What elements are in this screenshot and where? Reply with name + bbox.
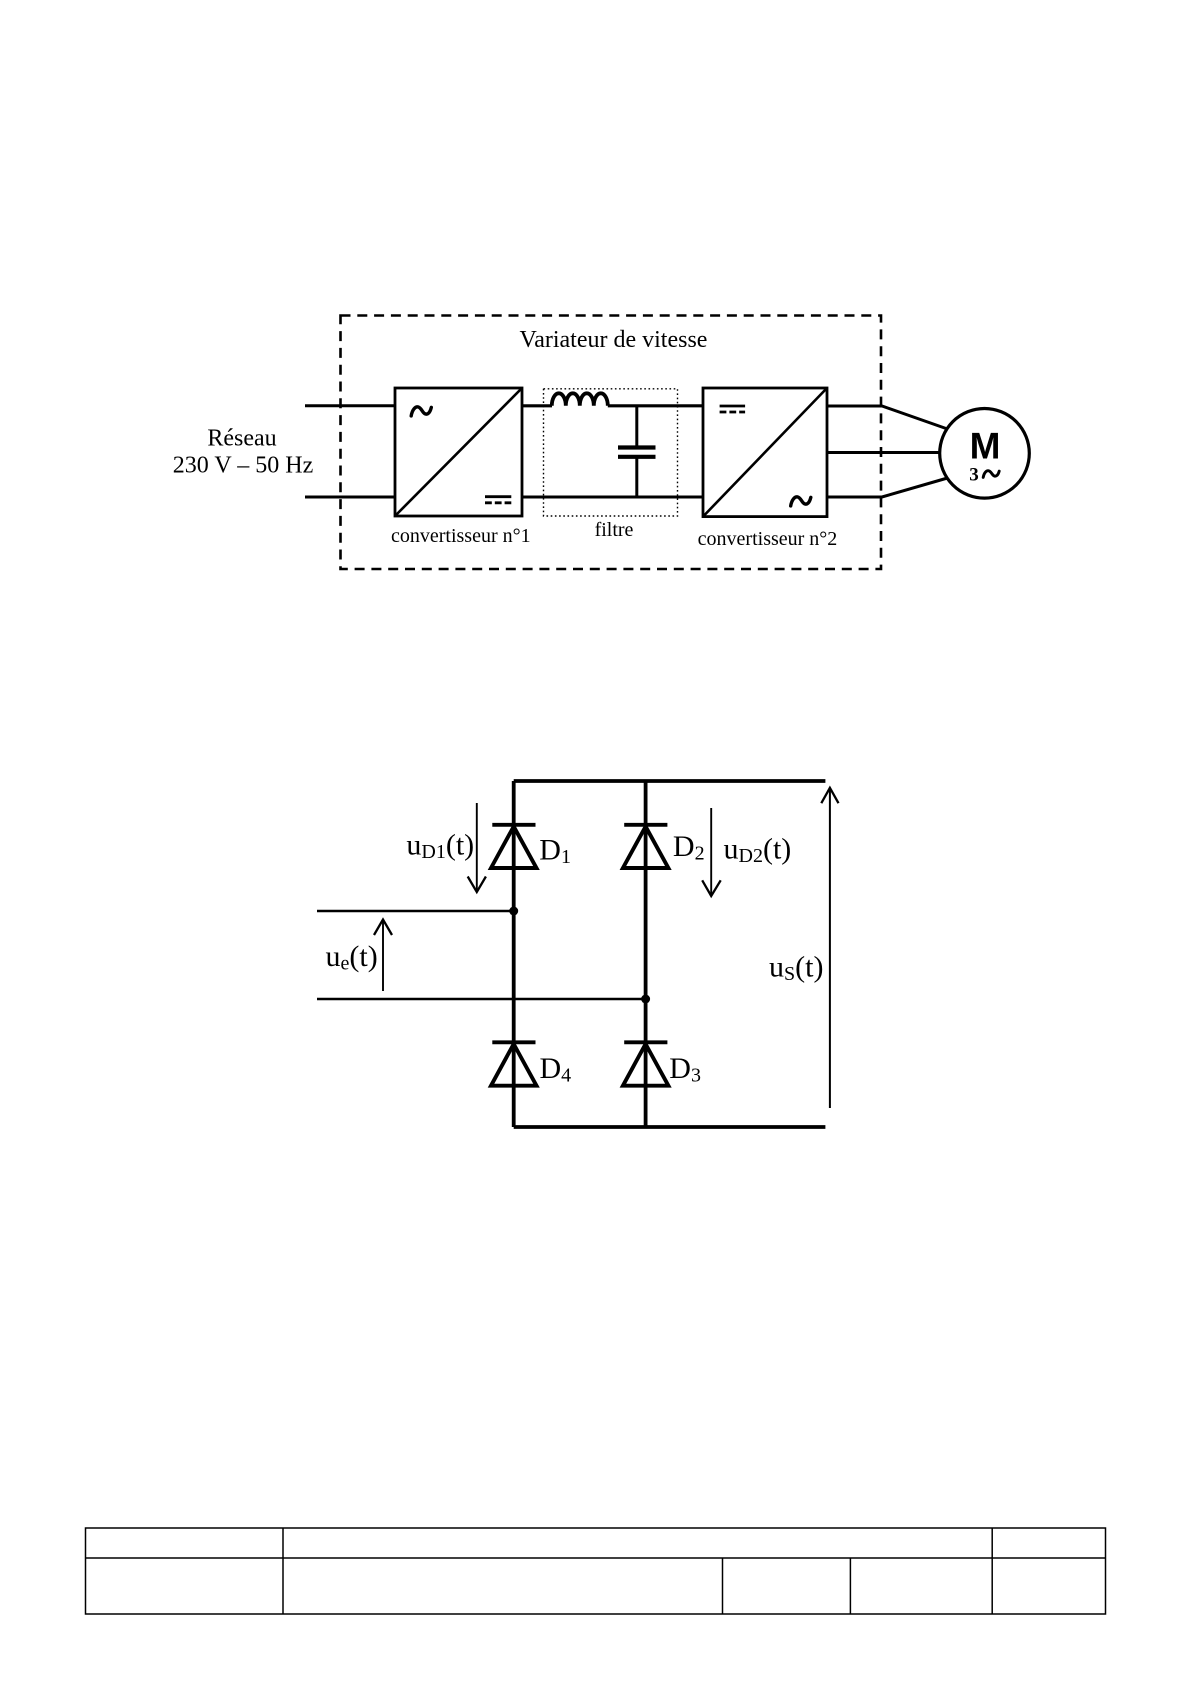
dotted filter box: [544, 389, 678, 516]
capacitor C (filter): [618, 406, 656, 497]
svg-text:Réseau: Réseau: [207, 426, 276, 452]
svg-text:convertisseur n°2: convertisseur n°2: [698, 528, 838, 550]
dashed enclosure box: Variateur de vitesse: [341, 316, 882, 570]
svg-text:Variateur de vitesse: Variateur de vitesse: [520, 327, 708, 353]
svg-text:ue(t): ue(t): [326, 940, 378, 975]
svg-text:230 V – 50 Hz: 230 V – 50 Hz: [173, 453, 313, 479]
label D3: [669, 1052, 701, 1087]
converter U1 box (convertisseur n°1): [395, 388, 522, 516]
svg-text:3: 3: [969, 465, 979, 486]
wire: U2 output phase 1: [827, 406, 948, 429]
table grid: [86, 1528, 1106, 1614]
AC tilde symbol in converter U2: [791, 497, 811, 506]
title: Variateur de vitesse: [520, 327, 708, 353]
label uD1(t): [406, 829, 474, 864]
wire: mains input bottom: [305, 496, 395, 499]
diode D4: [491, 1042, 537, 1085]
wire: bridge top rail: [514, 779, 826, 783]
wire: bridge bottom rail: [514, 1125, 826, 1129]
arrow ue(t): [374, 920, 392, 992]
label D4: [540, 1052, 572, 1087]
DC symbol in converter U2: [720, 406, 746, 412]
AC tilde symbol in converter U1: [411, 407, 431, 416]
wire: DC link bottom U1 to U2: [522, 496, 703, 499]
label D1: [539, 834, 571, 869]
wire: mains input top: [305, 404, 395, 407]
label uS(t): [769, 951, 823, 986]
diode D2: [623, 825, 669, 868]
motor M 3~: [940, 409, 1030, 499]
arrow uD2(t): [702, 808, 721, 896]
wire: U2 output phase 2: [827, 451, 940, 454]
label ue(t): [326, 940, 378, 975]
wire: U2 output phase 3: [827, 478, 948, 497]
inductor L (filter): [552, 393, 608, 406]
label: filtre: [595, 519, 634, 541]
svg-text:uS(t): uS(t): [769, 951, 823, 986]
wire: input lower (to node B): [317, 998, 646, 1001]
svg-text:convertisseur n°1: convertisseur n°1: [391, 525, 531, 547]
label: Réseau 230 V – 50 Hz: [173, 426, 313, 479]
wire: left leg (D1/D4 column): [512, 781, 516, 1127]
wire: inductor to converter U2: [608, 404, 703, 407]
wire: U1 to filter: [522, 404, 552, 407]
diode D1: [491, 825, 537, 868]
arrow uD1(t): [468, 803, 486, 892]
label uD2(t): [724, 833, 792, 868]
node B (D2-D3 midpoint junction): [641, 995, 650, 1004]
diode D3: [623, 1042, 669, 1085]
label: convertisseur n°2: [698, 528, 838, 550]
label D2: [673, 830, 705, 865]
wire: input upper (to node A): [317, 910, 514, 913]
label: convertisseur n°1: [391, 525, 531, 547]
DC symbol in converter U1: [485, 497, 511, 503]
arrow uS(t): [821, 787, 838, 1108]
node A (D1-D4 midpoint junction): [509, 907, 518, 916]
svg-text:filtre: filtre: [595, 519, 634, 541]
svg-text:M: M: [970, 426, 1001, 467]
wire: right leg (D2/D3 column): [644, 781, 648, 1127]
converter U2 box (convertisseur n°2): [703, 388, 827, 517]
